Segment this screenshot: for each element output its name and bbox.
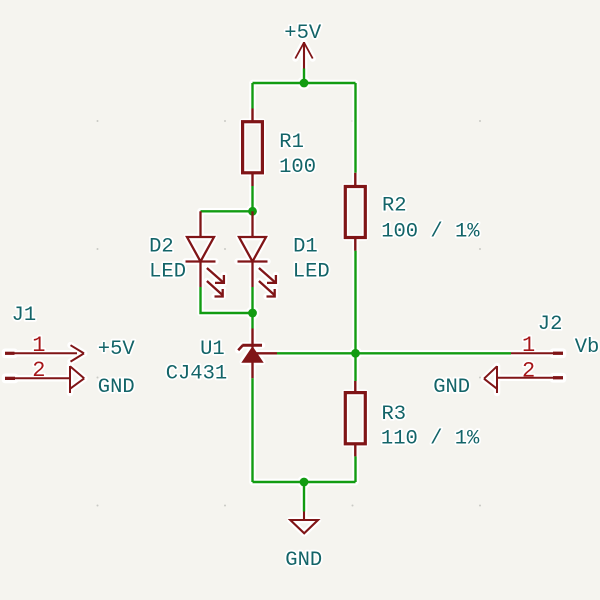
- wire R3 top: [354, 353, 356, 381]
- svg-text:1: 1: [32, 333, 45, 358]
- wire GND stem: [303, 482, 305, 512]
- power symbol +5V: [295, 42, 312, 69]
- svg-text:GND: GND: [98, 376, 135, 399]
- wire +5V stem: [303, 69, 305, 84]
- svg-text:LED: LED: [293, 261, 330, 284]
- resistor R2: [345, 173, 365, 251]
- wire D2 bottom: [201, 287, 253, 313]
- junction LED bottom: [248, 309, 257, 318]
- svg-text:J1: J1: [12, 304, 37, 327]
- wire D1 bottom: [251, 287, 253, 313]
- junction top: [300, 79, 309, 88]
- junction LED top: [248, 207, 257, 216]
- wire top to R1: [251, 83, 253, 109]
- svg-text:1: 1: [522, 333, 535, 358]
- wire U1 anode down: [251, 378, 253, 482]
- svg-text:CJ431: CJ431: [166, 362, 228, 385]
- svg-text:R3: R3: [382, 403, 407, 426]
- resistor R3: [345, 381, 365, 456]
- svg-text:+5V: +5V: [284, 22, 322, 45]
- svg-text:J2: J2: [538, 313, 563, 336]
- svg-text:D1: D1: [293, 236, 318, 259]
- svg-text:+5V: +5V: [98, 338, 136, 361]
- junction ref/R3: [351, 349, 360, 358]
- wire R3 bottom: [354, 456, 356, 482]
- wire U1 ref to J2: [277, 352, 511, 354]
- wire R1 to junction: [251, 186, 253, 211]
- svg-text:GND: GND: [433, 376, 470, 399]
- svg-text:100 / 1%: 100 / 1%: [381, 220, 480, 243]
- junction bottom: [300, 478, 309, 487]
- wire R2 top: [354, 83, 356, 173]
- resistor R1: [243, 109, 263, 187]
- wire R2 bottom: [354, 251, 356, 353]
- svg-text:Vb: Vb: [575, 336, 600, 359]
- connector J2: [484, 352, 563, 393]
- svg-text:2: 2: [522, 359, 535, 384]
- svg-text:100: 100: [279, 156, 316, 179]
- LED D2: [186, 211, 224, 296]
- wire top horizontal: [253, 82, 356, 84]
- svg-text:R2: R2: [382, 195, 407, 218]
- svg-text:2: 2: [32, 358, 45, 383]
- svg-text:LED: LED: [149, 261, 186, 284]
- svg-text:GND: GND: [285, 549, 322, 572]
- wire LED top branch: [201, 210, 253, 212]
- wire junction to U1: [251, 313, 253, 329]
- connector J1: [5, 345, 84, 393]
- svg-text:U1: U1: [200, 338, 225, 361]
- grid dots: [97, 120, 482, 507]
- svg-text:110 / 1%: 110 / 1%: [381, 428, 480, 451]
- ground symbol: [290, 512, 318, 534]
- shunt reference U1: [238, 329, 277, 379]
- svg-text:D2: D2: [149, 236, 174, 259]
- LED D1: [238, 211, 276, 296]
- wire bottom horizontal: [253, 481, 356, 483]
- svg-text:R1: R1: [279, 131, 304, 154]
